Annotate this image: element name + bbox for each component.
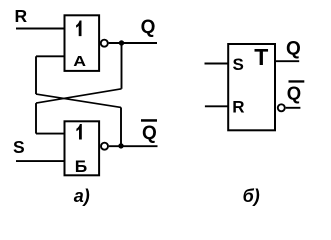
wire: stub into gate B upper input [36,133,65,135]
svg-text:А: А [73,53,86,69]
svg-text:Q: Q [141,17,156,38]
gate A (element 1, А) box [65,15,100,71]
svg-text:Q: Q [287,82,301,103]
svg-text:б): б) [243,186,260,206]
wire Qbar output of trigger [286,107,301,109]
svg-text:T: T [254,44,268,70]
gate A function label 1 [76,21,81,37]
wire Qbar output [109,145,158,147]
svg-text:S: S [233,55,244,74]
wire: vertical from Q junction down [121,43,123,89]
gate A inversion bubble [101,40,108,47]
wire S to gate B lower input [16,160,65,162]
wire Q output of trigger [276,60,300,62]
gate B (element 1, Б) box [65,121,100,175]
wire: vertical down to Qbar junction [120,107,122,145]
trigger T box [228,44,275,130]
wire: vertical down to gate B upper input level [35,103,37,134]
svg-text:R: R [232,98,244,117]
wire R to gate A upper input [16,28,65,30]
svg-text:R: R [15,6,28,26]
junction node on Qbar wire [118,143,123,148]
svg-text:Q: Q [142,123,157,144]
label Qbar overbar of trigger [289,80,305,82]
wire: stub from gate A lower input [36,55,65,57]
wire: diagonal Q feedback to left [36,89,122,103]
gate B function label 1 [76,124,81,140]
trigger inversion bubble [278,104,285,111]
wire S input [205,63,230,65]
svg-text:S: S [13,137,25,157]
gate B inversion bubble [101,143,108,150]
wire R input [205,105,229,107]
label Qbar overbar [141,119,157,122]
svg-text:а): а) [74,186,90,206]
junction node on Q wire [119,40,124,45]
svg-text:Q: Q [286,39,301,60]
wire Q output [109,42,157,44]
svg-text:Б: Б [75,158,87,177]
wire: diagonal Qbar feedback to right [36,94,121,107]
wire: vertical down from gate A lower input stub [35,56,37,94]
